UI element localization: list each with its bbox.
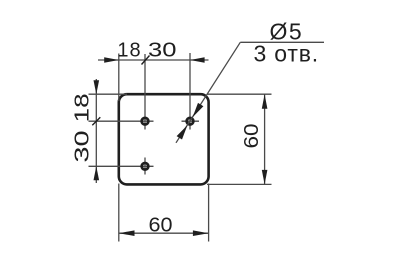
bottom extension line x=118.8 [118, 184, 120, 242]
svg-text:18: 18 [117, 40, 141, 62]
left dim arrow at y=166.3 pointing up [94, 166, 100, 180]
leader arrow upper-right pointing to hole [193, 103, 204, 117]
right dim arrow down [262, 170, 268, 185]
extension+center line vertical x=145 (hole 1) [144, 54, 146, 130]
center mark hole 2 horizontal [182, 120, 200, 122]
top dim text 30 [148, 38, 176, 61]
right dim text 60 rotated [240, 123, 262, 148]
leader shoulder line [240, 41, 324, 43]
hole 3 [142, 163, 149, 170]
bottom dim text 60 [148, 214, 172, 236]
label 3 otv [254, 41, 319, 67]
plate outline [119, 94, 209, 184]
svg-text:60: 60 [240, 123, 262, 148]
hole 2 [187, 118, 194, 125]
svg-text:60: 60 [148, 214, 172, 236]
extension+center line horizontal y=166.3 (hole 3 row) [89, 165, 154, 167]
left dim arrow at y=94.2 pointing down [94, 80, 100, 94]
leader arrow lower-left pointing to hole [177, 125, 188, 139]
extension line top-left vertical x=118.8 [118, 54, 120, 102]
left dim text 18 rotated [70, 93, 92, 122]
hole 1 [142, 118, 149, 125]
top dim arrow at x=190 pointing left [190, 57, 205, 63]
extension+center line horizontal y=121.2 (hole 1 row) [89, 120, 154, 122]
svg-text:18: 18 [70, 93, 92, 122]
right dim arrow up [262, 94, 268, 109]
svg-text:30: 30 [148, 38, 176, 61]
label diameter 5 [270, 19, 304, 45]
center mark hole 3 vertical [144, 158, 146, 175]
bottom dimension line y=233.2 [119, 232, 209, 234]
top dimension line y=60 [98, 59, 209, 61]
bottom dim arrow right [193, 230, 209, 236]
top dim tick at x=145.5 [142, 56, 150, 65]
top dim text 18 [117, 40, 141, 62]
right dimension line x=266 [264, 94, 266, 184]
bottom dim arrow left [119, 230, 135, 236]
svg-text:3 отв.: 3 отв. [254, 41, 319, 67]
left dim tick at y=121.2 [92, 117, 100, 125]
right extension line y=184.4 [207, 183, 272, 185]
svg-text:30: 30 [71, 130, 93, 162]
leader line through hole 2 [176, 42, 240, 143]
left dim text 30 rotated [71, 130, 93, 162]
extension+center line vertical x=190 (hole 2) [189, 53, 191, 130]
top dim arrow at x=118.8 pointing right [104, 57, 119, 63]
bottom extension line x=208.6 [208, 184, 210, 242]
extension line left horizontal y=94.2 [89, 93, 128, 95]
right extension line y=94.2 [207, 93, 272, 95]
left dimension line x=96.3 [95, 79, 97, 183]
